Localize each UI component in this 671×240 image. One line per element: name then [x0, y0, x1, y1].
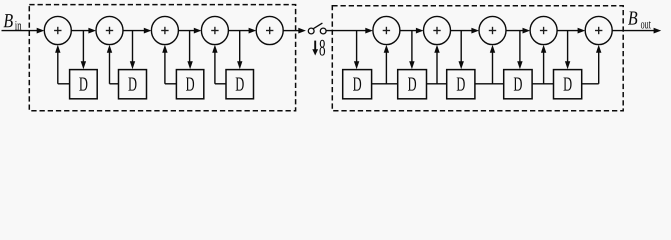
adder (integrator) I4	[201, 16, 228, 44]
wire Bin to adder I1	[2, 30, 39, 32]
wire switch into comb box	[326, 30, 366, 32]
adder (integrator) I5	[256, 16, 283, 44]
delay block D4 (integrator)	[226, 70, 254, 99]
delay block D9 (comb)	[554, 70, 582, 99]
downsample-by-8 label	[314, 41, 316, 51]
wire I2 to I3	[123, 30, 145, 32]
decimation switch contact 1	[308, 28, 314, 34]
chain wire from D8 past adder C4	[532, 83, 553, 85]
delay block D3 (integrator)	[176, 70, 203, 99]
feedback riser into adder C3	[492, 52, 494, 84]
adder (comb) C3	[479, 16, 506, 44]
adder (comb) C2	[424, 16, 451, 44]
junction wire down into delay D7	[460, 31, 462, 63]
adder (comb) C1	[373, 16, 400, 44]
junction wire down into delay D6	[411, 31, 413, 63]
chain wire from D9 past adder C5	[582, 83, 599, 85]
feedback riser into adder C5	[598, 52, 600, 84]
junction wire down into delay D2	[132, 31, 134, 63]
adder (comb) C4	[530, 16, 557, 44]
wire C2 to C3	[451, 30, 473, 32]
feedback riser into adder C4	[543, 52, 545, 84]
delay block D8 (comb)	[504, 70, 532, 99]
wire I5 out of integrator box to switch	[283, 30, 299, 32]
junction wire down into delay D5	[356, 31, 358, 63]
label Bin	[4, 14, 13, 27]
feedback riser into adder C1	[385, 52, 387, 84]
wire C3 to C4	[506, 30, 524, 32]
delay block D1 (integrator)	[70, 70, 98, 99]
delay block D6 (comb)	[398, 70, 427, 99]
adder (integrator) I3	[151, 16, 178, 44]
delay block D2 (integrator)	[119, 70, 147, 99]
feedback riser into adder C2	[436, 52, 438, 84]
wire I1 to I2	[71, 30, 89, 32]
decimation switch contact 2	[320, 28, 326, 34]
wire C1 to C2	[400, 30, 417, 32]
wire I3 to I4	[178, 30, 195, 32]
integrator section dashed box	[29, 5, 295, 111]
feedback wire D4 to adder I4	[215, 83, 226, 85]
junction wire down into delay D3	[189, 31, 191, 63]
adder (integrator) I2	[96, 16, 123, 44]
decimation switch lever	[313, 23, 322, 29]
comb section dashed box	[332, 6, 623, 111]
junction wire down into delay D1	[82, 31, 84, 63]
junction wire down into delay D8	[519, 31, 521, 63]
wire C5 out of comb box to Bout	[612, 30, 654, 32]
chain wire from D7 past adder C3	[475, 83, 504, 85]
chain wire from D5 past adder C1	[372, 83, 398, 85]
feedback wire D1 to adder I1	[58, 83, 70, 85]
delay block D7 (comb)	[447, 70, 475, 99]
delay block D5 (comb)	[343, 70, 372, 99]
feedback wire D3 to adder I3	[165, 83, 177, 85]
wire C4 to C5	[557, 30, 579, 32]
chain wire from D6 past adder C2	[427, 83, 447, 85]
adder (integrator) I1	[44, 16, 71, 44]
wire I4 to I5	[228, 30, 249, 32]
label Bout	[628, 12, 637, 25]
junction wire down into delay D4	[239, 31, 241, 63]
adder (comb) C5	[585, 16, 612, 44]
junction wire down into delay D9	[567, 31, 569, 63]
feedback wire D2 to adder I2	[110, 83, 119, 85]
